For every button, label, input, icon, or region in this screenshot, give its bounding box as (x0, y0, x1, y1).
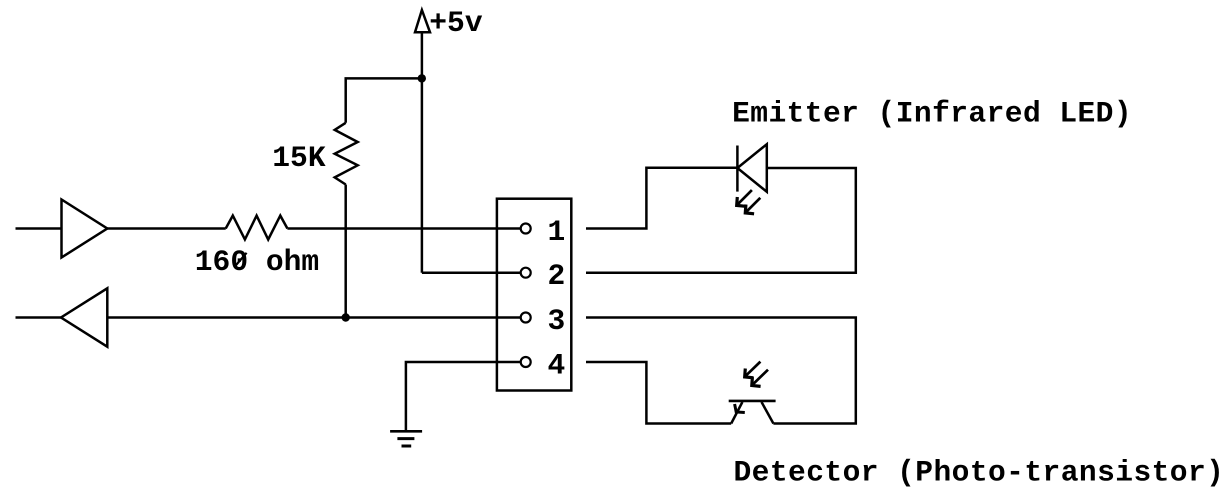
LED emission arrow 1 (737, 190, 752, 206)
LED D1 triangle (737, 144, 766, 192)
connector J1 box (497, 199, 571, 391)
buffer U1 (line driver, pointing right) (62, 200, 108, 258)
resistor R1 160 ohm (226, 216, 288, 240)
pin 1 circle (521, 224, 531, 234)
pin 1 label (548, 215, 566, 249)
pin 3 circle (521, 313, 531, 323)
phototransistor Q1 collector leg (762, 402, 774, 424)
svg-text:1: 1 (548, 215, 566, 249)
wire resistor to pin 1 (287, 227, 521, 230)
resistor R2 15K (335, 123, 358, 185)
detector light arrow 1 (745, 362, 761, 378)
slashed zero mark (235, 253, 247, 267)
phototransistor Q1 base bar (729, 400, 776, 403)
wire pin 4 to ground (406, 362, 521, 431)
phototransistor emitter arrowhead (735, 404, 745, 413)
svg-text:3: 3 (548, 304, 566, 338)
wire pin 3 stub to detector collector (586, 318, 856, 424)
wire buffer1 output to resistor (107, 227, 225, 230)
detector light arrow 2 (752, 370, 768, 387)
LED D1 cathode bar (736, 146, 739, 192)
label +5v (429, 6, 483, 40)
wire pin 1 stub to LED cathode (586, 168, 737, 229)
power +5v arrow (415, 10, 430, 32)
label 160 ohm (195, 245, 319, 279)
wire pin 4 stub to detector emitter (586, 362, 731, 424)
wire buffer1 input (16, 227, 62, 230)
wire buffer2 output to left edge (16, 316, 62, 319)
svg-text:15K: 15K (272, 141, 326, 175)
svg-text:160 ohm: 160 ohm (195, 245, 319, 279)
pin 4 label (548, 348, 566, 382)
svg-text:2: 2 (548, 259, 566, 293)
label Emitter (Infrared LED) (732, 96, 1132, 130)
junction +5v / 15K (418, 74, 426, 82)
pin 2 label (548, 259, 566, 293)
ground (390, 431, 422, 446)
svg-text:Emitter (Infrared LED): Emitter (Infrared LED) (732, 96, 1132, 130)
junction 15K / pin 3 wire (342, 313, 350, 321)
svg-text:4: 4 (548, 348, 566, 382)
wire +5v rail to pin 2 (422, 271, 521, 274)
wire +5v junction to 15K (346, 78, 422, 122)
wire +5v rail down (421, 32, 424, 272)
wire 15K to pin3 net (344, 185, 347, 318)
LED emission arrow 2 (745, 198, 760, 214)
pin 2 circle (521, 268, 531, 278)
label Detector (Photo-transistor) (734, 456, 1224, 490)
svg-text:Detector (Photo-transistor): Detector (Photo-transistor) (734, 456, 1224, 490)
label 15K (272, 141, 326, 175)
svg-text:+5v: +5v (429, 6, 483, 40)
wire LED anode to pin 2 stub (586, 168, 856, 273)
wire pin 3 to buffer2 (107, 316, 521, 319)
pin 4 circle (521, 357, 531, 367)
pin 3 label (548, 304, 566, 338)
phototransistor Q1 emitter leg (731, 402, 742, 424)
buffer U2 (line receiver, pointing left) (61, 288, 107, 346)
